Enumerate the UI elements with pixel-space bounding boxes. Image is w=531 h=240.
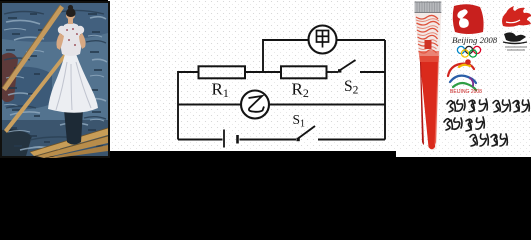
top wire to meter jia (263, 39, 309, 41)
water shading patches (2, 3, 108, 42)
punting pole held by woman (4, 46, 73, 133)
resistor R2 (281, 66, 327, 78)
olympic rings (457, 46, 480, 57)
speckled transition band (419, 51, 440, 62)
labels (212, 78, 359, 130)
arms (56, 33, 64, 50)
torch cap (silver) (415, 2, 442, 14)
right vertical wire (384, 40, 386, 140)
light streaks on water (4, 17, 107, 150)
hair (66, 8, 76, 17)
torch lower body solid red column (420, 56, 439, 149)
switch S1 lever (298, 126, 315, 139)
neck + face (68, 18, 73, 24)
darker red shading on column sides (420, 62, 424, 145)
background black (0, 0, 531, 190)
svg-text:BEIJING 2008: BEIJING 2008 (450, 89, 482, 95)
resistor row wire (178, 71, 199, 73)
resistor R1 (199, 66, 246, 78)
red emblem on body (425, 40, 432, 49)
calligraphy line 2 (stepped signature) (444, 117, 507, 146)
character JIA inside top meter (317, 31, 329, 48)
sleeves (58, 26, 66, 34)
left vertical wire (177, 71, 179, 140)
bottom row wire (178, 139, 223, 141)
switch S2 lever (340, 60, 356, 71)
svg-text:Beijing 2008: Beijing 2008 (452, 35, 498, 45)
bamboo oar across top-left (2, 5, 64, 91)
photo frame (0, 1, 110, 158)
battery cell: long thin bar + short bar (223, 130, 225, 148)
bamboo raft under her feet (30, 128, 108, 158)
Beijing 2008 dancing-figure emblem (452, 4, 498, 57)
red cloud pattern upper body (416, 15, 440, 53)
white backdrop panel (gap + circuit region) (108, 0, 414, 151)
dark ripple dashes on water (6, 14, 103, 146)
middle row wire (meter yi) (178, 104, 242, 106)
calligraphy line 1 : cursive squiggles (447, 99, 529, 112)
water (2, 3, 108, 156)
skirt (48, 54, 98, 113)
colorful skater logo (448, 59, 476, 90)
character YI inside lower meter (249, 96, 265, 112)
torch white panel (396, 0, 531, 157)
vertical junction wire (between R1 and R2) (262, 39, 264, 72)
right red flame logo (502, 6, 531, 50)
switch pivot squares (338, 69, 341, 72)
woman: legs shadow below skirt (64, 110, 83, 145)
torch body outline (tapered) (415, 13, 442, 150)
floral spots on blouse (66, 28, 78, 46)
black calligraphy + text under flame (504, 32, 526, 41)
ammeter yi circle (241, 91, 269, 119)
torso blouse (61, 23, 82, 56)
ammeter jia circle (309, 26, 337, 54)
